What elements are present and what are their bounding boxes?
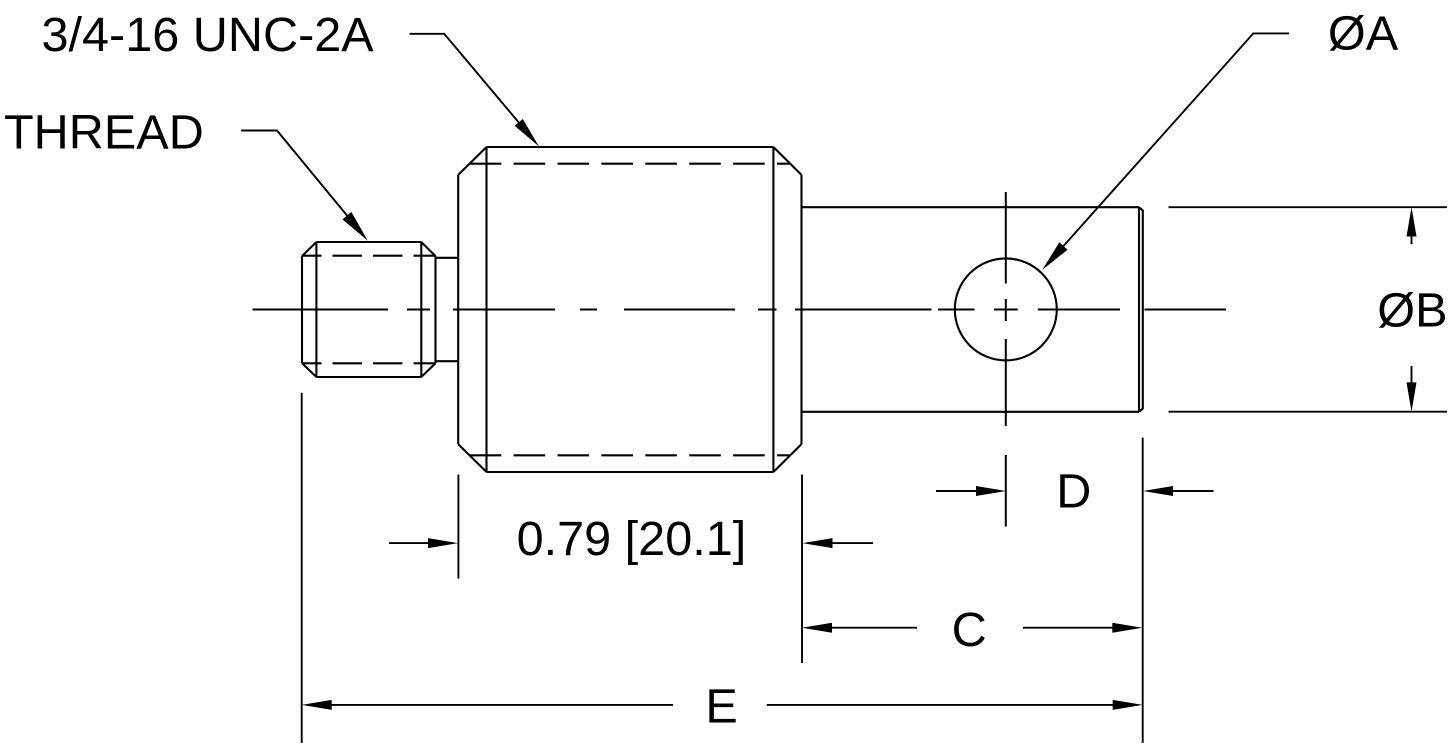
arrowhead E right <box>1113 700 1143 710</box>
svg-text:ØA: ØA <box>1328 6 1399 60</box>
extension line 0.79 left <box>457 475 459 579</box>
arrowhead E left <box>302 700 332 710</box>
horizontal centerline <box>253 309 1227 311</box>
stud thread root dashed top <box>302 255 435 257</box>
stud right edge <box>434 256 436 363</box>
stud chamfer top-left <box>302 242 316 256</box>
hex body left edge <box>457 175 459 444</box>
hex chamfer vertical right <box>772 147 774 472</box>
neck bottom edge <box>436 360 459 362</box>
hex chamfer top-left <box>458 147 486 175</box>
shaft right edge <box>1138 207 1140 412</box>
dim 0.79 left arrow line <box>389 542 429 544</box>
svg-text:THREAD: THREAD <box>4 106 204 160</box>
hole circle A <box>955 258 1057 360</box>
arrowhead B down <box>1407 382 1417 411</box>
svg-text:3/4-16 UNC-2A: 3/4-16 UNC-2A <box>42 8 375 62</box>
shaft top edge <box>802 206 1140 208</box>
vertical centerline of hole <box>1005 192 1007 527</box>
arrowhead D left <box>976 486 1006 496</box>
extension line C/E right <box>1142 438 1144 743</box>
arrowhead C left <box>802 623 832 633</box>
stud chamfer top-right <box>421 242 435 256</box>
hex chamfer bottom-left <box>458 444 486 472</box>
extension line C left <box>801 475 803 664</box>
arrowhead 0.79 right <box>803 538 833 548</box>
leader THREAD <box>241 131 361 233</box>
shaft bottom edge <box>802 411 1140 413</box>
extension line B bottom <box>1169 411 1448 413</box>
svg-text:D: D <box>1056 465 1091 519</box>
dim E right line <box>767 704 1114 706</box>
stud chamfer bottom-left <box>302 363 316 377</box>
neck top edge <box>436 257 459 259</box>
dim C right line <box>1023 627 1113 629</box>
arrowhead C right <box>1112 623 1142 633</box>
hex chamfer vertical left <box>485 147 487 472</box>
svg-text:C: C <box>952 603 987 657</box>
stud left edge <box>301 256 303 363</box>
leader ØA <box>1064 33 1290 246</box>
arrowhead B up <box>1407 207 1417 236</box>
hex chamfer top-right <box>773 147 801 175</box>
dim B top arrow tail <box>1411 236 1413 244</box>
arrowhead leader THREAD <box>342 212 367 241</box>
dim B bottom arrow tail <box>1411 366 1413 383</box>
hex dashed line bottom <box>470 454 790 456</box>
hex body bottom edge <box>487 471 774 473</box>
extension line B top <box>1169 206 1448 208</box>
stud chamfer vertical left <box>315 242 317 377</box>
arrowhead leader ØA <box>1042 242 1067 270</box>
hex chamfer bottom-right <box>773 444 801 472</box>
stud top edge <box>316 241 421 243</box>
extension line E left <box>301 393 303 743</box>
hex body top edge <box>487 146 774 148</box>
dim D left arrow line <box>936 490 976 492</box>
hex dashed line top <box>470 163 790 165</box>
stud bottom edge <box>316 376 421 378</box>
arrowhead 0.79 left <box>428 538 458 548</box>
shaft end cap line <box>1139 207 1143 412</box>
svg-text:0.79 [20.1]: 0.79 [20.1] <box>517 512 747 566</box>
dim E left line <box>331 704 673 706</box>
leader UNC-2A <box>410 34 519 123</box>
dim C left line <box>831 627 917 629</box>
svg-text:E: E <box>705 679 737 733</box>
dim 0.79 right arrow line <box>832 542 873 544</box>
dim D right arrow line <box>1173 490 1214 492</box>
arrowhead D right <box>1143 486 1173 496</box>
hex body right edge <box>800 175 802 444</box>
stud chamfer bottom-right <box>421 363 435 377</box>
stud thread root dashed bottom <box>302 362 435 364</box>
arrowhead leader UNC <box>515 119 539 147</box>
stud chamfer vertical right <box>420 242 422 377</box>
svg-text:ØB: ØB <box>1377 284 1447 338</box>
